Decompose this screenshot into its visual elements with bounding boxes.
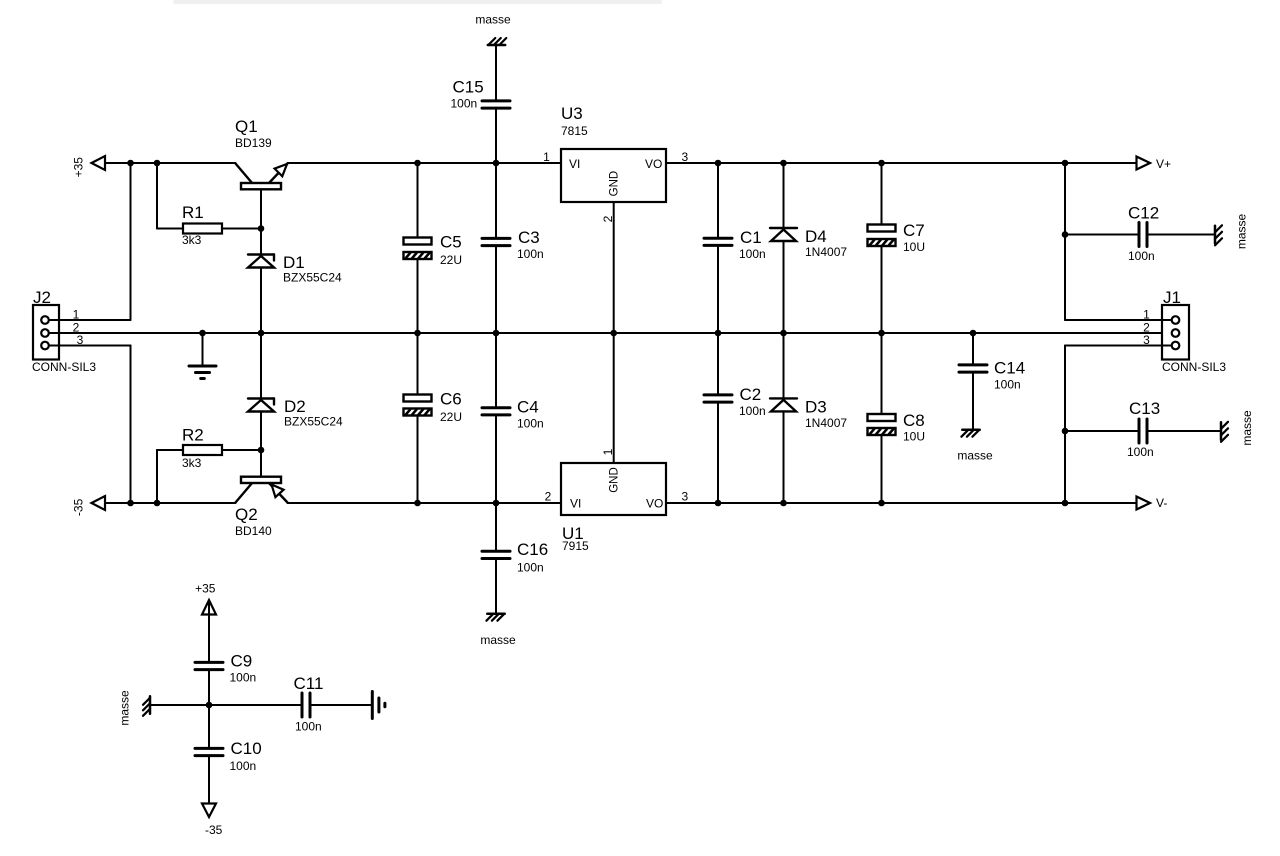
junction dot bottom rail / C6 xyxy=(414,500,421,507)
svg-text:J1: J1 xyxy=(1163,288,1181,307)
diode D4 1N4007 xyxy=(770,163,847,333)
junction dot mid rail / C1-C2 xyxy=(715,330,722,337)
wire top rail U3 VO to V+ xyxy=(666,162,1150,164)
svg-text:3: 3 xyxy=(77,333,84,347)
svg-text:C7: C7 xyxy=(903,221,925,240)
junction dot riser / C12 xyxy=(1062,231,1069,238)
svg-text:VO: VO xyxy=(646,497,663,511)
power flag V+ (output) xyxy=(1137,157,1172,172)
junction dot top rail / J1 riser xyxy=(1062,160,1069,167)
svg-text:10U: 10U xyxy=(903,430,925,444)
svg-text:7815: 7815 xyxy=(561,124,588,138)
svg-text:C1: C1 xyxy=(740,228,762,247)
svg-text:-35: -35 xyxy=(72,498,86,516)
svg-text:1: 1 xyxy=(73,308,80,322)
svg-text:100n: 100n xyxy=(1128,249,1155,263)
wire bottom rail Q2 to U1 xyxy=(288,502,562,504)
junction dot mid rail / D4-D3 xyxy=(780,330,787,337)
svg-text:1: 1 xyxy=(601,448,615,455)
capacitor C16 100n xyxy=(482,503,548,614)
svg-text:CONN-SIL3: CONN-SIL3 xyxy=(32,360,96,374)
svg-text:D4: D4 xyxy=(805,227,827,246)
svg-text:C11: C11 xyxy=(294,674,324,693)
svg-text:BZX55C24: BZX55C24 xyxy=(284,415,343,429)
svg-text:D3: D3 xyxy=(805,398,827,417)
connector J2 CONN-SIL3 xyxy=(32,288,131,374)
svg-text:100n: 100n xyxy=(295,720,322,734)
wire bottom rail U1 VO to V- xyxy=(666,502,1150,504)
svg-text:V-: V- xyxy=(1156,496,1167,510)
wire Q2 base xyxy=(260,450,262,477)
junction dot bottom rail / D3 xyxy=(780,500,787,507)
zener diode D1 BZX55C24 xyxy=(248,229,342,334)
svg-text:D2: D2 xyxy=(284,397,306,416)
capacitor C9 100n xyxy=(195,601,256,748)
wire masse to junction xyxy=(150,704,209,706)
junction dot bottom rail / R2 riser xyxy=(154,500,161,507)
junction dot C9-C10-C11-masse xyxy=(206,702,213,709)
svg-text:VI: VI xyxy=(570,497,581,511)
wire riser R2 to bottom rail xyxy=(156,450,158,503)
voltage regulator U1 7915 xyxy=(545,333,689,553)
chassis ground masse (left of C11) xyxy=(118,690,151,726)
wire riser J1 pin3 to bottom rail xyxy=(1064,346,1066,504)
svg-text:C2: C2 xyxy=(740,385,762,404)
junction dot mid rail / D1-D2 xyxy=(258,330,265,337)
svg-text:100n: 100n xyxy=(451,97,478,111)
svg-text:C4: C4 xyxy=(517,397,539,416)
chassis ground masse (below C16) xyxy=(480,614,516,647)
transistor Q1 BD139 xyxy=(235,117,288,229)
svg-text:C14: C14 xyxy=(994,359,1025,378)
capacitor C6 22U xyxy=(404,333,463,503)
voltage regulator U3 7815 xyxy=(543,104,688,333)
wire riser J2 pin1 to top rail xyxy=(130,163,132,320)
junction dot bottom rail / C4-C16 xyxy=(493,500,500,507)
wire bottom rail left segment xyxy=(92,502,236,504)
svg-text:1N4007: 1N4007 xyxy=(805,245,847,259)
power flag +35 (bottom block) xyxy=(195,582,216,615)
svg-text:GND: GND xyxy=(609,171,621,197)
capacitor C7 10U xyxy=(868,163,926,333)
svg-text:C12: C12 xyxy=(1128,204,1159,223)
svg-text:masse: masse xyxy=(475,13,511,27)
svg-text:VO: VO xyxy=(645,157,662,171)
connector J1 CONN-SIL3 xyxy=(1065,288,1226,374)
junction dot top rail / C5 xyxy=(414,160,421,167)
junction dot top rail / R1 riser xyxy=(154,160,161,167)
capacitor C12 100n xyxy=(1065,204,1215,264)
svg-text:C5: C5 xyxy=(440,233,462,252)
svg-text:2: 2 xyxy=(601,215,615,222)
svg-text:BD139: BD139 xyxy=(235,136,272,150)
junction dot mid rail / C3-C4 xyxy=(493,330,500,337)
svg-text:100n: 100n xyxy=(230,759,257,773)
wire top rail Q1 to U3 xyxy=(288,162,562,164)
capacitor C10 100n xyxy=(195,739,262,816)
svg-text:1: 1 xyxy=(1143,308,1150,322)
chassis ground masse (right of C12) xyxy=(1215,214,1249,250)
resistor R2 3k3 xyxy=(157,426,261,471)
junction dot top rail / C15-C3 xyxy=(493,160,500,167)
svg-text:100n: 100n xyxy=(517,247,544,261)
wire middle rail (ground net) xyxy=(49,332,1172,334)
power flag -35 (bottom block) xyxy=(202,804,223,838)
svg-text:3k3: 3k3 xyxy=(182,233,202,247)
junction dot top rail / D4 xyxy=(780,160,787,167)
diode D3 1N4007 xyxy=(770,333,847,503)
capacitor C4 100n xyxy=(482,333,544,503)
svg-text:3: 3 xyxy=(682,150,689,164)
capacitor C5 22U xyxy=(404,163,463,333)
junction dot bottom rail / J2 pin3 riser xyxy=(127,500,134,507)
svg-text:2: 2 xyxy=(545,490,552,504)
junction dot R2 / D2 / Q2 base xyxy=(258,447,265,454)
svg-text:100n: 100n xyxy=(230,671,257,685)
svg-text:C10: C10 xyxy=(231,739,262,758)
svg-text:C6: C6 xyxy=(440,390,462,409)
svg-text:100n: 100n xyxy=(517,561,544,575)
svg-text:C8: C8 xyxy=(903,411,925,430)
wire riser J2 pin3 to bottom rail xyxy=(130,346,132,504)
power flag V- (output) xyxy=(1137,496,1168,510)
junction dot R1 / Q1 base / D1 xyxy=(258,225,265,232)
svg-text:C15: C15 xyxy=(453,78,484,97)
svg-text:100n: 100n xyxy=(517,416,544,430)
junction dot top rail / C7 xyxy=(878,160,885,167)
svg-text:C9: C9 xyxy=(231,652,253,671)
capacitor C1 100n xyxy=(704,163,766,333)
resistor R1 3k3 xyxy=(157,203,261,247)
junction dot mid rail / earth ground xyxy=(199,330,206,337)
chassis ground masse (right of C13) xyxy=(1221,410,1254,446)
capacitor C8 10U xyxy=(868,333,926,503)
capacitor C11 100n xyxy=(209,674,372,734)
svg-text:1N4007: 1N4007 xyxy=(805,416,847,430)
wire riser top rail to J1 pin1 xyxy=(1064,163,1066,320)
junction dot bottom rail / C8 xyxy=(878,500,885,507)
junction dot mid rail / C14 xyxy=(970,330,977,337)
svg-text:3: 3 xyxy=(682,490,689,504)
wire riser R1 to top rail xyxy=(156,163,158,229)
svg-text:C16: C16 xyxy=(517,540,548,559)
svg-text:3k3: 3k3 xyxy=(182,456,202,470)
zener diode D2 BZX55C24 xyxy=(248,333,343,450)
svg-text:masse: masse xyxy=(118,690,132,726)
svg-text:100n: 100n xyxy=(739,404,766,418)
svg-text:+35: +35 xyxy=(72,157,86,178)
junction dot mid rail / U3-U1 GND xyxy=(610,330,617,337)
svg-text:Q1: Q1 xyxy=(235,117,258,136)
wire top rail left segment xyxy=(92,162,236,164)
svg-text:V+: V+ xyxy=(1156,157,1171,171)
svg-text:22U: 22U xyxy=(440,410,462,424)
svg-text:masse: masse xyxy=(480,633,516,647)
svg-text:1: 1 xyxy=(543,150,550,164)
svg-text:Q2: Q2 xyxy=(235,505,258,524)
svg-text:masse: masse xyxy=(1240,410,1254,446)
svg-text:100n: 100n xyxy=(739,247,766,261)
svg-text:-35: -35 xyxy=(205,823,223,837)
svg-text:100n: 100n xyxy=(994,378,1021,392)
junction dot top rail / J2 pin1 riser xyxy=(127,160,134,167)
svg-text:U3: U3 xyxy=(561,104,583,123)
svg-text:22U: 22U xyxy=(440,253,462,267)
svg-text:masse: masse xyxy=(957,449,993,463)
junction dot bottom rail / C2 xyxy=(715,500,722,507)
capacitor C2 100n xyxy=(704,333,766,503)
svg-text:VI: VI xyxy=(569,157,580,171)
earth ground symbol xyxy=(189,333,216,379)
capacitor C13 100n xyxy=(1065,399,1221,459)
svg-text:100n: 100n xyxy=(1127,445,1154,459)
junction dot riser / C13 xyxy=(1062,428,1069,435)
svg-text:R1: R1 xyxy=(182,203,204,222)
svg-text:R2: R2 xyxy=(182,426,204,445)
chassis ground masse (top) xyxy=(475,13,511,46)
svg-text:3: 3 xyxy=(1143,333,1150,347)
svg-text:masse: masse xyxy=(1235,214,1249,250)
svg-text:CONN-SIL3: CONN-SIL3 xyxy=(1162,360,1226,374)
capacitor C3 100n xyxy=(482,163,544,333)
svg-text:7915: 7915 xyxy=(562,539,589,553)
svg-text:C13: C13 xyxy=(1129,399,1160,418)
svg-text:BD140: BD140 xyxy=(235,524,272,538)
earth ground (right of C11) xyxy=(372,692,385,719)
svg-text:J2: J2 xyxy=(33,288,51,307)
junction dot mid rail / C7-C8 xyxy=(878,330,885,337)
svg-text:GND: GND xyxy=(609,467,621,493)
svg-text:C3: C3 xyxy=(518,228,540,247)
svg-text:D1: D1 xyxy=(283,253,305,272)
capacitor C15 100n xyxy=(451,45,511,163)
transistor Q2 BD140 xyxy=(235,477,288,538)
junction dot top rail / C1 xyxy=(715,160,722,167)
chassis ground masse (below C14) xyxy=(957,430,993,463)
junction dot mid rail / C5-C6 xyxy=(414,330,421,337)
power flag +35 (left input) xyxy=(72,156,106,177)
power flag -35 (left input) xyxy=(72,496,106,516)
svg-text:+35: +35 xyxy=(195,582,216,596)
svg-text:10U: 10U xyxy=(903,240,925,254)
svg-text:BZX55C24: BZX55C24 xyxy=(283,271,342,285)
capacitor C14 100n xyxy=(959,333,1025,430)
junction dot bottom rail / J1 riser xyxy=(1062,500,1069,507)
